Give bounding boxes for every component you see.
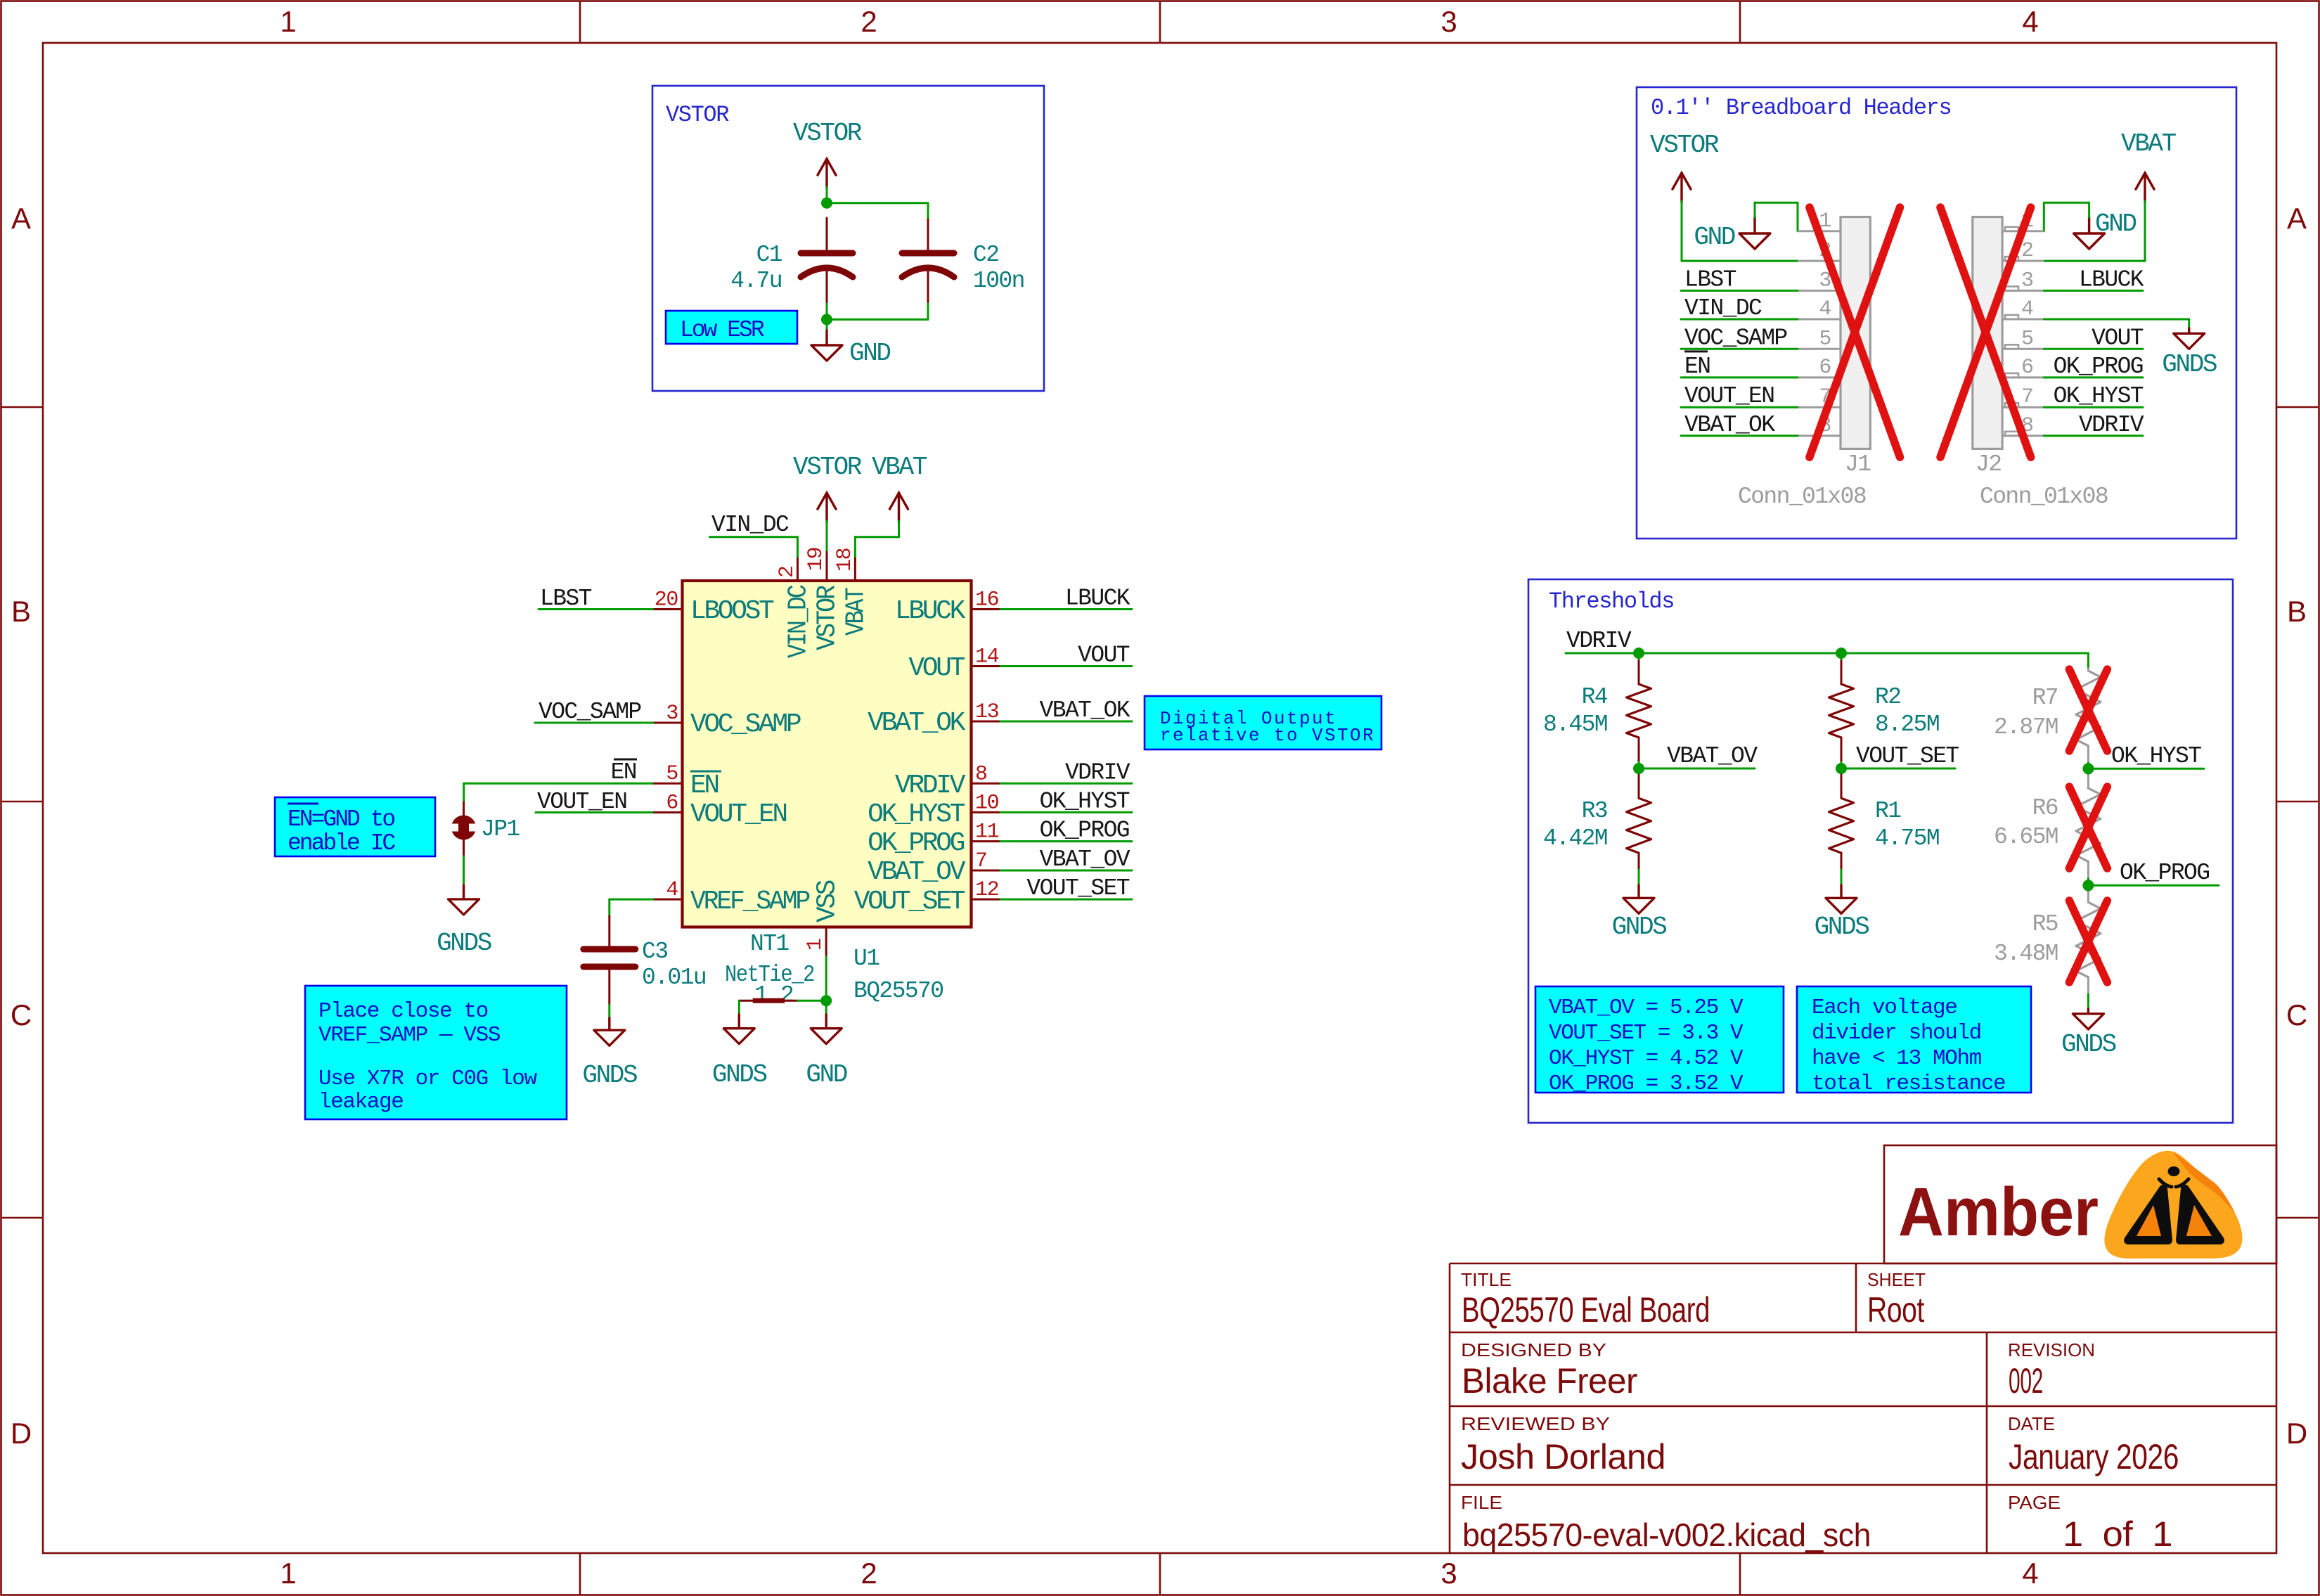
svg-text:OK_PROG = 3.52 V: OK_PROG = 3.52 V — [1549, 1071, 1744, 1096]
svg-text:VBAT_OV: VBAT_OV — [868, 857, 965, 887]
svg-text:GNDS: GNDS — [582, 1061, 637, 1090]
node OK_PROG — [2082, 880, 2094, 891]
svg-text:LBST: LBST — [1684, 266, 1736, 292]
svg-text:GNDS: GNDS — [1815, 913, 1869, 941]
svg-text:4.75M: 4.75M — [1875, 825, 1939, 851]
svg-text:8.25M: 8.25M — [1875, 712, 1939, 738]
wire — [1682, 260, 1798, 262]
wire LBUCK — [2044, 290, 2143, 292]
wire VDRIV — [1566, 652, 2088, 655]
wire — [2087, 763, 2089, 768]
svg-text:B: B — [2287, 595, 2307, 628]
node VBAT_OV — [1633, 763, 1644, 774]
svg-text:Each voltage: Each voltage — [1812, 996, 1957, 1020]
svg-text:D: D — [2286, 1417, 2307, 1450]
pin 12 — [972, 899, 1001, 901]
svg-text:1 of 1: 1 of 1 — [2063, 1514, 2172, 1554]
svg-text:OK_HYST: OK_HYST — [2111, 743, 2201, 769]
pin 1 J2 — [2002, 230, 2044, 232]
pin 20 — [653, 608, 683, 610]
node VDRIV R2 — [1836, 648, 1847, 659]
wire — [927, 203, 929, 219]
svg-text:Josh Dorland: Josh Dorland — [1461, 1437, 1665, 1476]
wire VREF_SAMP — [610, 899, 653, 901]
svg-text:1: 1 — [280, 1557, 296, 1590]
wire — [1841, 870, 1843, 885]
svg-text:VREF_SAMP — VSS: VREF_SAMP — VSS — [318, 1023, 501, 1048]
jumper JP1 — [463, 802, 465, 816]
svg-text:12: 12 — [975, 878, 998, 902]
wire — [826, 304, 828, 319]
wire EN — [1681, 376, 1798, 378]
svg-text:Low ESR: Low ESR — [680, 317, 764, 343]
svg-text:GND: GND — [806, 1060, 846, 1089]
wire — [827, 202, 928, 204]
svg-text:GNDS: GNDS — [2061, 1030, 2116, 1059]
svg-text:VOUT_EN: VOUT_EN — [690, 799, 786, 830]
svg-text:GND: GND — [1694, 223, 1734, 252]
svg-text:EN: EN — [611, 759, 636, 785]
svg-text:J2: J2 — [1976, 451, 2001, 477]
svg-text:14: 14 — [975, 645, 999, 669]
ground GNDS — [594, 1030, 625, 1045]
pin 5 — [653, 783, 683, 785]
DNP cross R7 — [2069, 669, 2107, 751]
svg-text:2.87M: 2.87M — [1994, 714, 2058, 740]
wire — [1638, 762, 1640, 768]
note threshold values — [1535, 986, 1784, 1093]
svg-text:4: 4 — [2022, 5, 2038, 38]
svg-text:5: 5 — [666, 762, 678, 786]
wire — [2044, 202, 2089, 204]
connector J1 — [1841, 217, 1870, 449]
svg-text:C2: C2 — [973, 242, 998, 268]
svg-text:7: 7 — [975, 849, 987, 873]
connector J2 — [1973, 217, 2002, 449]
svg-text:OK_HYST: OK_HYST — [868, 799, 965, 830]
wire — [797, 1000, 826, 1002]
pin 2 J2 — [2002, 260, 2044, 262]
power VSTOR — [1673, 173, 1691, 202]
svg-text:Root: Root — [1867, 1290, 1924, 1330]
wire VBAT_OV — [1000, 870, 1132, 872]
svg-text:VBAT_OK: VBAT_OK — [868, 708, 965, 738]
svg-text:GNDS: GNDS — [437, 929, 491, 958]
pin 1 VSS — [825, 927, 827, 957]
svg-text:002: 002 — [2009, 1361, 2043, 1401]
pin 4 J1 — [1798, 318, 1841, 321]
svg-text:R1: R1 — [1875, 798, 1901, 824]
svg-text:NetTie_2: NetTie_2 — [725, 962, 814, 988]
wire VOUT — [2044, 348, 2143, 350]
wire — [1755, 202, 1798, 204]
svg-text:REVISION: REVISION — [2008, 1339, 2095, 1360]
wire — [898, 521, 900, 537]
wire VOUT_EN — [536, 811, 652, 813]
svg-text:C: C — [2286, 998, 2307, 1031]
svg-text:VDRIV: VDRIV — [1065, 759, 1130, 785]
svg-text:VOUT_SET = 3.3 V: VOUT_SET = 3.3 V — [1549, 1021, 1744, 1045]
gnd stem — [2188, 328, 2190, 333]
wire — [1638, 870, 1640, 885]
svg-text:VSTOR: VSTOR — [793, 453, 862, 482]
svg-text:C3: C3 — [642, 939, 667, 965]
group box VSTOR — [652, 86, 1044, 391]
power VBAT — [890, 493, 908, 522]
wire — [1841, 653, 1843, 661]
wire OK_PROG — [2044, 376, 2143, 378]
wire VOUT_SET — [1841, 768, 1955, 770]
wire — [827, 318, 928, 321]
note EN=GND to enable IC — [275, 797, 435, 856]
ground GND — [811, 1029, 842, 1044]
wire — [855, 536, 898, 538]
svg-text:VBAT: VBAT — [2121, 129, 2177, 158]
wire — [825, 1000, 827, 1015]
svg-text:100n: 100n — [973, 268, 1024, 294]
ground GNDS — [2174, 333, 2205, 349]
svg-text:TITLE: TITLE — [1461, 1269, 1512, 1290]
power VBAT — [2136, 173, 2154, 202]
node VSTOR top — [821, 198, 832, 209]
pin 3 — [653, 722, 683, 724]
power VSTOR — [818, 159, 836, 188]
svg-text:VIN_DC: VIN_DC — [784, 585, 814, 658]
IC U1 BQ25570 — [683, 581, 972, 927]
wire VOUT_SET — [1000, 899, 1132, 901]
svg-text:GNDS: GNDS — [2162, 350, 2217, 379]
svg-text:bq25570-eval-v002.kicad_sch: bq25570-eval-v002.kicad_sch — [1462, 1517, 1871, 1553]
wire — [2087, 768, 2089, 776]
gnd stem — [1753, 217, 1755, 233]
wire OK_PROG — [2088, 884, 2219, 887]
svg-text:VOUT_EN: VOUT_EN — [537, 789, 626, 815]
svg-text:4: 4 — [2022, 1557, 2038, 1590]
DNP cross J1 — [1810, 207, 1900, 457]
wire VDRIV — [1000, 783, 1132, 785]
svg-text:VREF_SAMP: VREF_SAMP — [690, 887, 810, 917]
svg-text:NT1: NT1 — [750, 931, 789, 957]
node VSS/GND — [820, 995, 832, 1006]
svg-text:2: 2 — [861, 5, 877, 38]
wire — [1797, 202, 1799, 231]
svg-text:8.45M: 8.45M — [1543, 712, 1607, 738]
node VDRIV R4 — [1633, 648, 1644, 659]
group box Thresholds — [1528, 579, 2233, 1123]
svg-text:3: 3 — [1441, 1557, 1457, 1590]
svg-text:6.65M: 6.65M — [1994, 824, 2058, 850]
gnd stem — [2087, 1009, 2089, 1014]
wire VOC_SAMP — [1681, 348, 1798, 350]
svg-text:VOUT_SET: VOUT_SET — [1026, 875, 1129, 901]
svg-text:EN: EN — [690, 771, 718, 801]
wire — [2087, 879, 2089, 885]
note Low ESR — [666, 311, 797, 344]
svg-text:R6: R6 — [2032, 795, 2058, 821]
wire — [826, 521, 828, 553]
svg-text:LBOOST: LBOOST — [690, 596, 774, 626]
gnd stem — [825, 1015, 827, 1029]
DNP cross R6 — [2069, 787, 2107, 868]
pin 2 — [797, 558, 799, 581]
svg-text:GNDS: GNDS — [712, 1060, 767, 1089]
wire — [463, 856, 465, 885]
pin 6 — [653, 811, 683, 813]
svg-text:VDRIV: VDRIV — [2079, 412, 2144, 438]
node OK_HYST — [2082, 763, 2094, 774]
group box 0.1 inch Breadboard Headers — [1637, 87, 2236, 539]
resistor R7 (DNP) — [2087, 669, 2089, 671]
wire — [826, 187, 828, 203]
ground GNDS — [1826, 898, 1857, 913]
wire VBAT_OV — [1639, 768, 1755, 770]
svg-text:enable IC: enable IC — [288, 830, 395, 856]
svg-text:VBAT_OV: VBAT_OV — [1040, 847, 1130, 873]
wire — [2088, 202, 2090, 217]
svg-text:EN=GND to: EN=GND to — [288, 806, 394, 832]
svg-text:VSTOR: VSTOR — [793, 119, 862, 148]
wire VOUT — [1000, 665, 1132, 667]
pin 11 — [972, 840, 1001, 842]
svg-text:VDRIV: VDRIV — [1566, 628, 1632, 654]
wire OK_HYST — [1000, 811, 1132, 813]
svg-text:11: 11 — [975, 820, 999, 844]
svg-text:C1: C1 — [756, 242, 782, 268]
wire VOUT_EN — [1681, 406, 1798, 408]
wire VSS — [825, 956, 827, 1000]
wire — [2043, 202, 2045, 231]
svg-text:6: 6 — [2021, 356, 2033, 380]
svg-text:4.7u: 4.7u — [730, 268, 782, 294]
capacitor C1 body — [801, 253, 853, 277]
svg-text:5: 5 — [1819, 327, 1831, 351]
svg-text:VSS: VSS — [813, 880, 843, 922]
wire — [797, 537, 799, 560]
capacitor C3 body — [584, 949, 636, 967]
svg-text:16: 16 — [975, 588, 999, 612]
svg-text:8: 8 — [975, 762, 987, 786]
pin 2 J1 — [1798, 260, 1841, 262]
svg-text:2: 2 — [2021, 239, 2033, 263]
svg-text:OK_PROG: OK_PROG — [2120, 860, 2209, 886]
svg-text:7: 7 — [2021, 385, 2033, 409]
wire to JP1 — [463, 783, 465, 802]
svg-text:PAGE: PAGE — [2008, 1492, 2061, 1513]
svg-text:4: 4 — [2021, 297, 2033, 321]
svg-text:VOUT_SET: VOUT_SET — [1856, 743, 1959, 769]
svg-text:3.48M: 3.48M — [1994, 941, 2058, 967]
svg-text:19: 19 — [804, 548, 828, 571]
svg-text:VOUT_EN: VOUT_EN — [1684, 383, 1774, 409]
svg-text:0.01u: 0.01u — [642, 965, 706, 991]
gnd stem — [2088, 217, 2090, 233]
svg-text:VOUT: VOUT — [908, 653, 965, 683]
svg-text:R5: R5 — [2032, 911, 2058, 937]
svg-text:1: 1 — [754, 982, 768, 1008]
svg-text:A: A — [2287, 202, 2307, 235]
svg-text:3: 3 — [666, 702, 678, 726]
pin 8 — [972, 783, 1001, 785]
pin 7 — [972, 870, 1001, 872]
svg-text:OK_PROG: OK_PROG — [868, 828, 964, 858]
svg-text:R2: R2 — [1875, 684, 1900, 710]
svg-text:2: 2 — [780, 982, 793, 1008]
pin 3 J1 — [1798, 290, 1841, 292]
svg-text:BQ25570: BQ25570 — [853, 978, 943, 1004]
wire — [2087, 653, 2089, 669]
wire — [2144, 201, 2146, 261]
svg-text:3: 3 — [2021, 269, 2033, 292]
wire — [738, 1000, 740, 1015]
svg-text:SHEET: SHEET — [1867, 1269, 1926, 1290]
svg-text:VBAT_OV: VBAT_OV — [1667, 743, 1758, 769]
svg-text:FILE: FILE — [1461, 1492, 1502, 1513]
svg-text:Use X7R or C0G low: Use X7R or C0G low — [318, 1067, 537, 1091]
svg-text:VIN_DC: VIN_DC — [1684, 295, 1762, 321]
ground GND — [1739, 233, 1770, 249]
net tie bar — [753, 998, 785, 1003]
svg-text:VOUT: VOUT — [2092, 325, 2144, 351]
wire — [1681, 201, 1683, 261]
svg-text:VOC_SAMP: VOC_SAMP — [690, 709, 801, 740]
wire LBST — [1681, 290, 1798, 292]
pin 5 J1 — [1798, 348, 1841, 350]
svg-text:REVIEWED BY: REVIEWED BY — [1461, 1413, 1610, 1434]
svg-text:BQ25570 Eval Board: BQ25570 Eval Board — [1462, 1290, 1710, 1330]
capacitor C2 — [927, 219, 929, 250]
wire VIN_DC — [1681, 318, 1798, 321]
svg-text:3: 3 — [1441, 5, 1457, 38]
wire — [1638, 768, 1640, 775]
svg-text:DESIGNED BY: DESIGNED BY — [1461, 1339, 1606, 1360]
node VOUT_SET — [1836, 763, 1847, 774]
svg-text:VSTOR: VSTOR — [666, 102, 729, 128]
svg-text:LBUCK: LBUCK — [1065, 586, 1130, 612]
pin 8 J2 — [2002, 435, 2044, 437]
wire — [608, 899, 610, 916]
ground GNDS — [1623, 898, 1654, 913]
svg-text:VRDIV: VRDIV — [895, 771, 966, 801]
svg-text:6: 6 — [666, 792, 678, 816]
gnd stem — [463, 885, 465, 899]
svg-text:VIN_DC: VIN_DC — [711, 512, 789, 538]
wire VDRIV — [2044, 435, 2143, 437]
svg-text:4: 4 — [1819, 297, 1831, 321]
ground GND — [2074, 233, 2105, 249]
svg-text:relative to VSTOR: relative to VSTOR — [1160, 725, 1375, 746]
wire — [854, 537, 856, 560]
ground GNDS — [2073, 1014, 2103, 1029]
svg-text:2: 2 — [861, 1557, 877, 1590]
svg-text:Amber: Amber — [1898, 1173, 2099, 1250]
gnd stem — [738, 1015, 740, 1029]
svg-text:LBUCK: LBUCK — [895, 596, 966, 626]
gnd stem — [1637, 885, 1639, 898]
DNP cross J2 — [1940, 207, 2031, 457]
svg-text:GNDS: GNDS — [1612, 913, 1667, 941]
ground GND — [811, 345, 842, 361]
ground GNDS — [449, 899, 479, 915]
svg-text:VOUT_SET: VOUT_SET — [854, 887, 965, 917]
svg-text:LBUCK: LBUCK — [2079, 266, 2144, 292]
svg-text:6: 6 — [1819, 356, 1831, 380]
svg-text:OK_PROG: OK_PROG — [2054, 354, 2143, 380]
svg-text:have < 13 MOhm: have < 13 MOhm — [1812, 1046, 1982, 1071]
svg-text:20: 20 — [655, 588, 678, 612]
svg-text:Blake Freer: Blake Freer — [1462, 1361, 1637, 1401]
pin 19 — [826, 552, 828, 581]
wire — [2087, 885, 2089, 892]
wire — [1754, 202, 1756, 217]
wire OK_PROG — [1000, 840, 1132, 842]
wire OK_HYST — [2088, 768, 2204, 770]
svg-text:GND: GND — [849, 339, 890, 368]
wire VBAT_OK — [1000, 721, 1132, 723]
wire OK_HYST — [2044, 406, 2143, 408]
svg-text:Conn_01x08: Conn_01x08 — [1738, 484, 1866, 510]
pin 6 J2 — [2002, 376, 2044, 378]
pin 18 — [854, 558, 856, 581]
svg-text:VOC_SAMP: VOC_SAMP — [1684, 325, 1787, 351]
svg-text:R3: R3 — [1582, 798, 1607, 824]
svg-text:Place close to: Place close to — [318, 999, 488, 1024]
gnd stem — [825, 330, 827, 345]
wire — [1841, 768, 1843, 775]
wire — [608, 1005, 610, 1018]
pin 7 J1 — [1798, 406, 1841, 408]
svg-text:R7: R7 — [2032, 685, 2058, 711]
svg-text:OK_PROG: OK_PROG — [1040, 818, 1129, 844]
wire — [2044, 318, 2189, 321]
svg-text:OK_HYST: OK_HYST — [2054, 383, 2144, 409]
svg-text:VBAT_OK: VBAT_OK — [1684, 412, 1775, 438]
svg-text:LBST: LBST — [540, 586, 592, 612]
ground GNDS — [723, 1029, 754, 1044]
wire EN — [464, 783, 652, 785]
svg-text:10: 10 — [975, 791, 999, 815]
capacitor C3 — [608, 916, 610, 949]
svg-text:B: B — [11, 595, 31, 628]
svg-text:VSTOR: VSTOR — [1650, 131, 1719, 160]
wire — [2087, 994, 2089, 1009]
pin 6 J1 — [1798, 376, 1841, 378]
svg-text:A: A — [11, 202, 31, 235]
svg-text:R4: R4 — [1582, 684, 1608, 710]
svg-text:OK_HYST: OK_HYST — [1040, 788, 1130, 814]
svg-text:leakage: leakage — [318, 1090, 403, 1114]
power VSTOR — [818, 493, 836, 522]
svg-text:OK_HYST = 4.52 V: OK_HYST = 4.52 V — [1549, 1046, 1744, 1071]
wire VBAT_OK — [1681, 435, 1798, 437]
svg-text:Conn_01x08: Conn_01x08 — [1980, 484, 2108, 510]
pin 10 — [972, 811, 1001, 813]
wire — [1638, 653, 1640, 661]
gnd stem — [608, 1018, 610, 1030]
note divider resistance — [1797, 986, 2031, 1093]
wire LBUCK — [1000, 608, 1132, 610]
pin 7 J2 — [2002, 406, 2044, 408]
wire — [2044, 260, 2145, 262]
svg-text:JP1: JP1 — [481, 816, 520, 842]
svg-text:VBAT_OV = 5.25 V: VBAT_OV = 5.25 V — [1549, 996, 1744, 1020]
svg-text:VBAT: VBAT — [872, 453, 927, 482]
pin 3 J2 — [2002, 290, 2044, 292]
svg-text:2: 2 — [775, 566, 799, 578]
svg-text:1: 1 — [280, 5, 296, 38]
svg-text:4: 4 — [666, 878, 678, 902]
wire — [927, 304, 929, 319]
svg-text:J1: J1 — [1845, 451, 1871, 477]
